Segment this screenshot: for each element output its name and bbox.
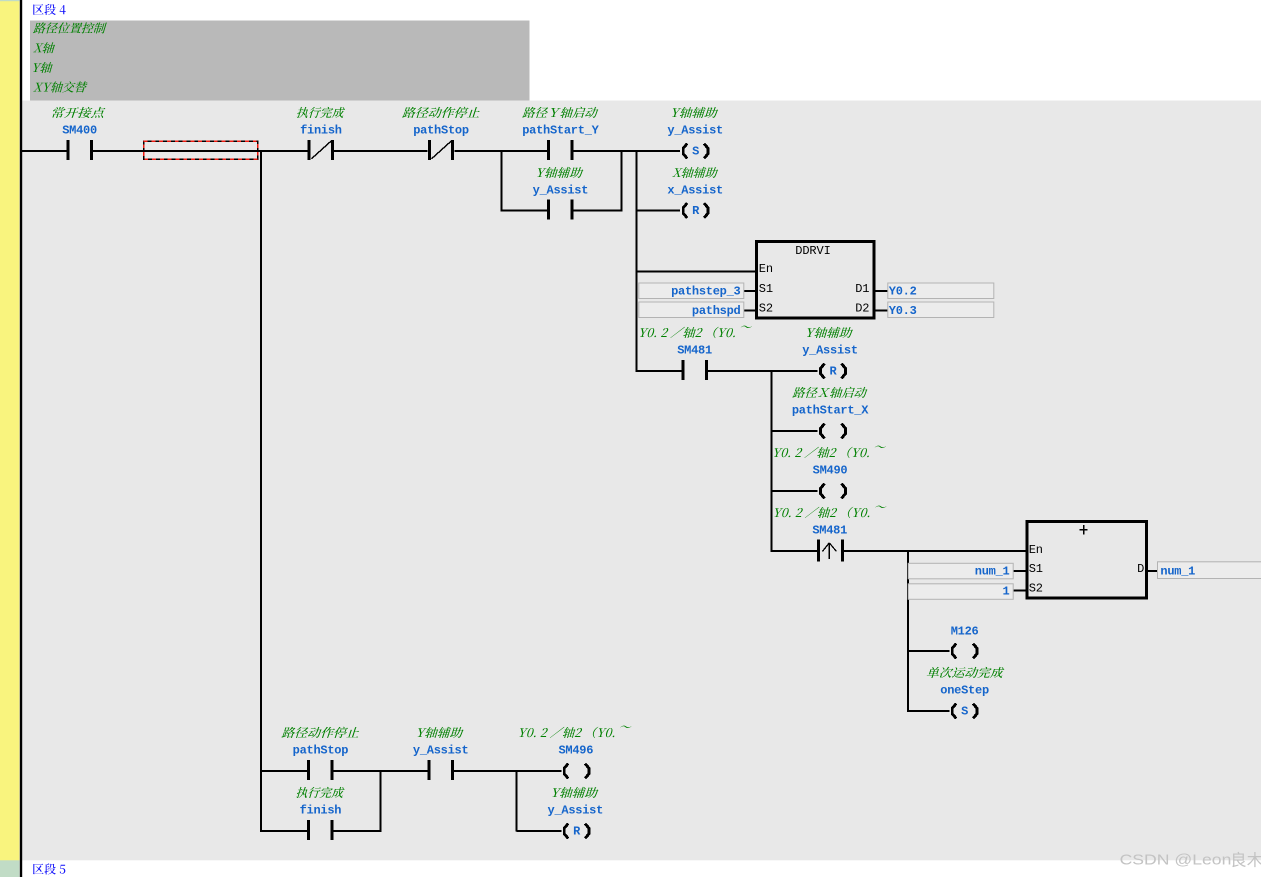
coil y_Assist (R) rung2 [821, 364, 846, 379]
wire to x_Assist coil [636, 210, 681, 212]
svg-text:finish: finish [300, 803, 342, 817]
coil y_Assist (S) [683, 144, 708, 159]
svg-text:pathStart_X: pathStart_X [792, 403, 869, 417]
wire rung3 parallel merge vertical [380, 770, 382, 832]
operand box num_1 S1 [908, 563, 1013, 579]
wire rung3 lower seg2 [334, 830, 381, 832]
contact pathStop rung3 (NO) [307, 760, 333, 780]
wire parallel branch left vertical [500, 150, 502, 212]
wire En connector to DDRVI [636, 271, 756, 273]
edit cursor box (red dashed) [144, 141, 258, 159]
comment line 2 X轴 [33, 42, 55, 53]
svg-text:num_1: num_1 [975, 565, 1010, 579]
label 执行完成 / finish rung3 [296, 787, 344, 798]
svg-text:M126: M126 [951, 624, 979, 638]
comment line 3 Y轴 [33, 62, 53, 73]
wire rung3 lower seg3 [517, 830, 562, 832]
left power rail [20, 0, 22, 877]
wire to plus block En [844, 550, 1026, 552]
wire branch down from node after cursor to rung3 [260, 150, 262, 832]
contact SM400 常开接点 (NO) [66, 140, 92, 160]
svg-text:S1: S1 [759, 282, 773, 296]
label Y0.2/轴2 SM481 rung2 [640, 326, 752, 339]
coil SM496 ( ) [564, 764, 589, 779]
wire parallel branch right vertical [620, 150, 622, 212]
label 路径动作停止 / pathStop rung3 [282, 727, 360, 738]
svg-text:D: D [1137, 562, 1144, 576]
wire rung1 seg5 to coil [573, 150, 680, 152]
svg-text:R: R [573, 824, 581, 838]
wire row SM490 [772, 490, 818, 492]
wire row M126 [908, 650, 949, 652]
wire branch down to M126/oneStep [907, 550, 909, 712]
wire plus S1 connector [1013, 570, 1025, 572]
coil y_Assist (R) rung3 [564, 824, 589, 839]
contact SM481 (NO) [681, 360, 707, 380]
label Y轴辅助 / y_Assist rung2 R coil [807, 327, 853, 338]
wire row oneStep [908, 710, 949, 712]
svg-text:DDRVI: DDRVI [795, 244, 831, 258]
operand box num_1 D [1158, 562, 1261, 579]
coil M126 ( ) [952, 644, 977, 659]
wire node to coil column vertical [636, 150, 638, 372]
wire S1 connector [744, 290, 756, 292]
wire rung3 branch vertical at SM496 [516, 770, 518, 832]
wire plus D connector [1148, 570, 1158, 572]
svg-text:SM496: SM496 [558, 743, 593, 757]
label 路径X轴启动 / pathStart_X [792, 387, 867, 398]
plus block title [1083, 525, 1084, 535]
wire S2 connector [744, 310, 756, 312]
svg-text:oneStep: oneStep [940, 683, 989, 697]
svg-text:pathspd: pathspd [692, 304, 741, 318]
wire rung3 seg2 [334, 770, 428, 772]
contact SM481 rising edge [817, 540, 844, 562]
svg-text:y_Assist: y_Assist [802, 343, 858, 357]
wire plus S2 connector [1013, 590, 1025, 592]
operand box 1 S2 [908, 584, 1013, 600]
svg-text:SM490: SM490 [813, 463, 848, 477]
comment line 1 路径位置控制 [33, 22, 107, 33]
coil SM490 ( ) [821, 484, 846, 499]
operand box pathspd [639, 302, 744, 318]
label Y轴辅助 / y_Assist S coil [672, 107, 718, 118]
svg-text:SM481: SM481 [677, 343, 712, 357]
coil pathStart_X ( ) [821, 424, 846, 439]
svg-text:En: En [1029, 543, 1043, 557]
svg-text:pathStart_Y: pathStart_Y [522, 123, 599, 137]
svg-text:1: 1 [1003, 585, 1010, 599]
label 执行完成 / finish rung1 [297, 107, 345, 118]
wire row pathStart_X [772, 430, 818, 432]
svg-text:Y0.3: Y0.3 [889, 304, 917, 318]
wire rung2 branch vertical [771, 370, 773, 552]
svg-text:S: S [961, 704, 968, 718]
svg-text:finish: finish [300, 123, 342, 137]
svg-text:S1: S1 [1029, 562, 1043, 576]
svg-text:y_Assist: y_Assist [667, 123, 723, 137]
wire D2 connector [875, 310, 888, 312]
label Y轴辅助 / y_Assist parallel [537, 167, 583, 178]
wire parallel branch bottom left [500, 210, 547, 212]
svg-text:D1: D1 [855, 282, 869, 296]
wire D1 connector [875, 290, 888, 292]
svg-text:num_1: num_1 [1160, 565, 1195, 579]
svg-text:pathStop: pathStop [293, 743, 349, 757]
left margin strip bottom (green) [0, 860, 20, 877]
svg-text:SM481: SM481 [812, 523, 847, 537]
contact pathStart_Y 路径Y轴启动 (NO) [547, 140, 573, 160]
label 单次运动完成 / oneStep [927, 667, 1005, 678]
svg-text:y_Assist: y_Assist [548, 803, 604, 817]
wire rung1 left [22, 150, 67, 152]
svg-text:D2: D2 [855, 302, 869, 316]
svg-text:pathStop: pathStop [413, 123, 469, 137]
svg-text:S2: S2 [759, 302, 773, 316]
wire rung3 lower seg1 [260, 830, 307, 832]
contact y_Assist Y轴辅助 (NO, parallel) [547, 200, 573, 220]
wire rung1 seg4 [455, 150, 548, 152]
label X轴辅助 / x_Assist R coil [672, 167, 718, 178]
svg-text:R: R [692, 204, 700, 218]
operand box Y0.3 [888, 302, 994, 318]
svg-text:S2: S2 [1029, 582, 1043, 596]
operand box Y0.2 [888, 283, 994, 299]
network comment box [30, 21, 530, 101]
left margin strip (yellow) [0, 0, 20, 877]
wire rung2 seg1 [636, 370, 682, 372]
operand box pathstep_3 [639, 283, 744, 299]
svg-text:y_Assist: y_Assist [413, 743, 469, 757]
wire parallel branch bottom right [573, 210, 621, 212]
contact finish rung3 (NO) [307, 820, 333, 840]
svg-text:y_Assist: y_Assist [533, 183, 589, 197]
label 路径动作停止 / pathStop rung1 [402, 107, 480, 118]
network 5 header 区段 5 [33, 863, 65, 874]
function block + (ADD) [1027, 521, 1147, 598]
contact y_Assist rung3 (NO) [427, 760, 453, 780]
contact finish 执行完成 (NC) [308, 140, 334, 160]
svg-text:S: S [692, 144, 699, 158]
wire row SM481 edge [772, 550, 818, 552]
label Y0.2/轴2 SM496 [520, 726, 632, 739]
wire rung1 seg2 through edit cursor box [93, 150, 308, 152]
svg-text:CSDN @Leon: CSDN @Leon [1120, 853, 1232, 869]
function block DDRVI U1 [757, 241, 874, 318]
svg-text:x_Assist: x_Assist [667, 183, 723, 197]
wire rung3 seg1 [260, 770, 307, 772]
network 4 header 区段 4 [33, 4, 66, 15]
wire rung1 seg3 [334, 150, 428, 152]
svg-text:SM400: SM400 [62, 123, 97, 137]
label 常开接点 / SM400 [52, 107, 105, 118]
label Y轴辅助 / y_Assist rung3 R [553, 787, 599, 798]
coil x_Assist (R) [683, 203, 708, 218]
coil oneStep (S) [952, 704, 977, 719]
wire rung2 seg2 [708, 370, 818, 372]
label Y轴辅助 / y_Assist rung3 [418, 727, 464, 738]
svg-text:R: R [830, 364, 838, 378]
label 路径Y轴启动 / pathStart_Y [522, 107, 598, 118]
svg-text:En: En [759, 262, 773, 276]
svg-text:Y0.2: Y0.2 [889, 284, 917, 298]
svg-text:pathstep_3: pathstep_3 [671, 284, 740, 298]
wire rung3 seg3 [454, 770, 561, 772]
label Y0.2/轴2 SM490 [774, 446, 886, 459]
comment line 4 XY轴交替 [33, 81, 87, 92]
contact pathStop 路径动作停止 (NC) [428, 140, 454, 160]
label Y0.2/轴2 SM481 edge [775, 506, 887, 518]
